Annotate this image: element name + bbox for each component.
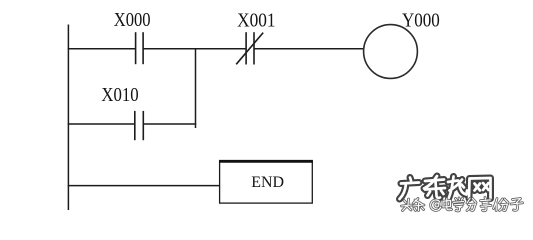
wire rung1 middle segment (143, 48, 246, 50)
svg-text:END: END (251, 174, 284, 191)
头 (402, 199, 412, 211)
svg-text:X001: X001 (237, 9, 275, 31)
contact X001 (normally closed) (236, 32, 263, 64)
享 (481, 198, 492, 211)
svg-text:Y000: Y000 (402, 9, 440, 31)
END block box (220, 161, 313, 203)
contact X010 (normally open) (135, 111, 144, 140)
条 (413, 199, 424, 211)
学 (454, 198, 464, 211)
watermark small text 头条 @电学分享份子 (outlined) (402, 198, 523, 212)
wire rung1 left segment (68, 48, 136, 50)
wire rung2 right segment (143, 123, 196, 125)
left power rail (67, 25, 69, 211)
wire rung2 left segment (68, 123, 135, 125)
分 (467, 199, 476, 211)
coil Y000 (364, 25, 418, 79)
wire rung1 right segment (254, 48, 364, 50)
watermark big text 广东龙网 (outlined strokes) (400, 176, 491, 199)
wire branch vertical (node after X000) (195, 48, 197, 128)
龙 (448, 177, 467, 199)
网 (469, 178, 491, 199)
svg-text:X010: X010 (101, 84, 138, 106)
wire rung3 segment to END (68, 185, 220, 187)
@ (431, 200, 441, 210)
份 (494, 199, 509, 211)
子 (511, 199, 523, 211)
svg-text:X000: X000 (114, 9, 151, 31)
contact X000 (normally open) (136, 32, 144, 64)
东 (424, 176, 445, 198)
广 (400, 178, 420, 200)
电 (443, 199, 452, 210)
